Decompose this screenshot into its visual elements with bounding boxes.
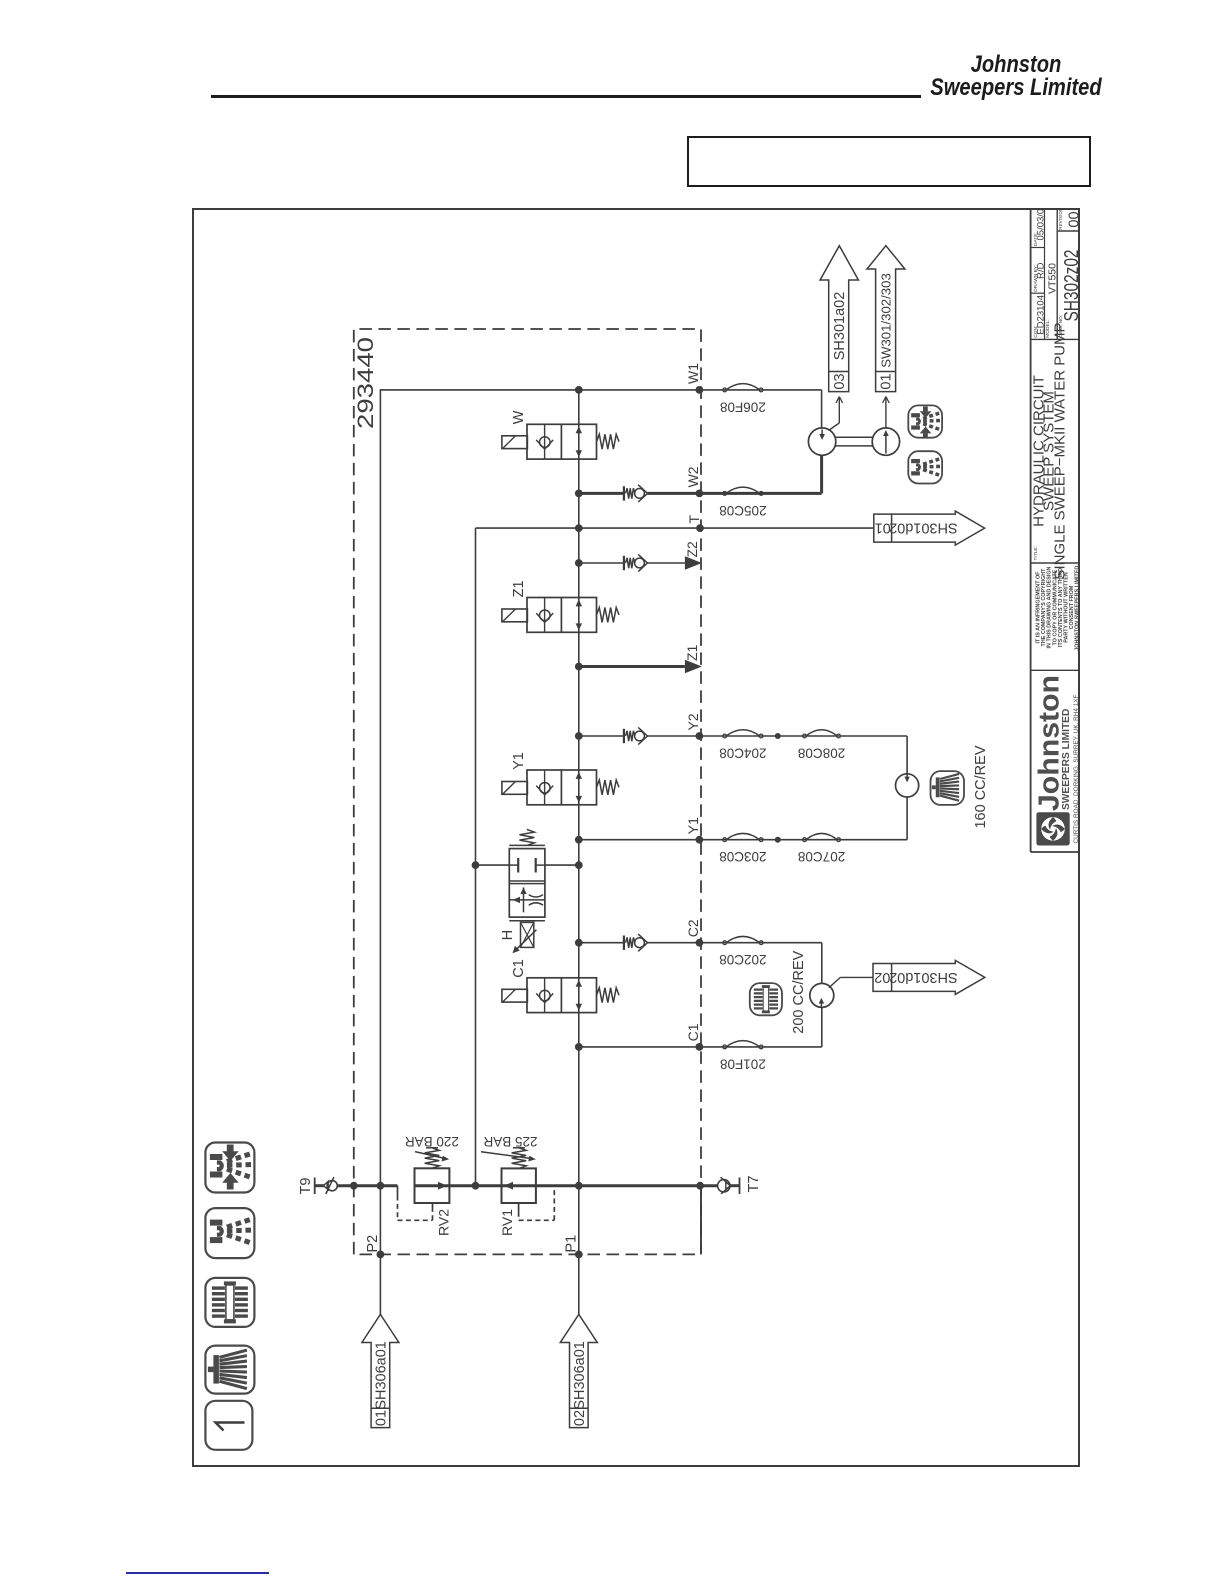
icon spray arrows at pump	[908, 405, 942, 438]
output arrow 02 SH301d02 down	[873, 960, 985, 994]
svg-text:02: 02	[874, 969, 890, 985]
flow control valve H body	[509, 849, 545, 918]
drawing frame	[193, 209, 1079, 1466]
solid overlay on block bottom edge near T7	[700, 1186, 702, 1255]
orifice 203C08 on x=627.3	[723, 838, 727, 842]
icon brush at 200cc motor	[750, 983, 782, 1015]
svg-text:ED23104: ED23104	[1036, 295, 1047, 335]
orifice 208C08 on x=731.0	[803, 734, 807, 738]
solenoid valve Y1	[527, 770, 597, 805]
output arrow 03 SH301a02	[820, 246, 858, 392]
wire C2 branch	[579, 942, 624, 944]
rotated schematic	[192, 208, 1080, 1467]
svg-text:SINGLE SWEEP−MKII WATER PUMP: SINGLE SWEEP−MKII WATER PUMP	[1052, 322, 1069, 579]
check valve on line x=973.6	[623, 486, 625, 500]
svg-text:Z2: Z2	[684, 541, 700, 558]
wire from arrow to port	[578, 1254, 580, 1314]
svg-text:REVISION: REVISION	[1058, 208, 1063, 230]
svg-text:208C08: 208C08	[798, 746, 845, 761]
svg-text:206F08: 206F08	[720, 399, 766, 414]
orifice 202C08 on x=524.3	[723, 941, 727, 945]
RV2 setting arrow	[415, 1152, 446, 1159]
wire H line from T rail to main rail	[476, 864, 510, 866]
port T7	[739, 1178, 741, 1195]
header rule	[211, 95, 921, 98]
orifice 201F08 on x=420.1	[723, 1045, 727, 1049]
svg-text:00: 00	[1067, 211, 1081, 227]
wire T return rail	[475, 528, 477, 1186]
title block frame	[1030, 208, 1032, 852]
icon water spray with shut-off arrows	[205, 1143, 254, 1193]
svg-text:205C08: 205C08	[719, 503, 766, 518]
svg-text:SWEEPERS LIMITED: SWEEPERS LIMITED	[1061, 709, 1072, 810]
wire Z1 branch	[579, 665, 685, 668]
svg-text:R/D: R/D	[1036, 262, 1047, 279]
svg-text:05/03/07: 05/03/07	[1036, 208, 1047, 240]
H closed position cell	[509, 864, 518, 866]
svg-text:03: 03	[832, 373, 848, 389]
H metering position cell	[509, 899, 545, 901]
svg-text:JOHNSTON SWEEPERS LIMITED.: JOHNSTON SWEEPERS LIMITED.	[1075, 564, 1080, 651]
svg-text:01: 01	[879, 373, 895, 389]
solenoid valve C1	[527, 978, 597, 1013]
orifice 204C08 on x=731.0	[723, 734, 727, 738]
svg-text:01: 01	[374, 1410, 390, 1426]
relief valve RV2	[415, 1168, 450, 1203]
svg-text:Y1: Y1	[511, 752, 527, 770]
port T9	[314, 1178, 316, 1195]
johnston logo cell	[1036, 812, 1069, 845]
svg-text:SH301d02: SH301d02	[889, 520, 958, 536]
icon sheet number 1	[205, 1401, 252, 1450]
wire W2 branch	[579, 492, 624, 495]
RV2 pilot dashed loop	[397, 1186, 399, 1196]
output arrow 01 SW301/302/303	[867, 246, 905, 392]
svg-text:T7: T7	[746, 1176, 762, 1193]
shaft between circles	[835, 445, 872, 447]
connector to arrow 02	[829, 977, 841, 987]
wire main P1 rail	[578, 390, 580, 1255]
svg-text:201F08: 201F08	[720, 1056, 766, 1071]
icon channel brush	[205, 1346, 254, 1394]
svg-text:SH301d02: SH301d02	[889, 969, 958, 985]
connector to arrow 03	[829, 423, 840, 431]
svg-text:W2: W2	[685, 466, 701, 487]
RV1 pilot dashed loop	[518, 1203, 520, 1212]
icon wide sweep brush	[205, 1278, 254, 1327]
water pump motor pair circles	[808, 428, 835, 455]
svg-text:MODEL:: MODEL:	[1045, 319, 1051, 337]
footer blue link line	[126, 1572, 269, 1574]
svg-text:W: W	[511, 410, 527, 424]
empty reference box	[687, 136, 1091, 187]
svg-text:C1: C1	[685, 1023, 701, 1041]
water pump motor 200cc circle	[810, 983, 834, 1007]
wire RV2 to RV1	[449, 1184, 501, 1187]
wire RV1 to T7	[536, 1184, 718, 1187]
header wordmark Johnston Sweepers Limited	[848, 53, 1184, 99]
svg-text:Z1: Z1	[511, 580, 527, 597]
svg-text:H: H	[500, 930, 516, 940]
svg-text:T: T	[686, 515, 702, 524]
check valve on line x=731.0	[623, 729, 625, 743]
svg-text:01: 01	[875, 520, 891, 536]
svg-text:02: 02	[572, 1410, 588, 1426]
svg-text:207C08: 207C08	[798, 849, 845, 864]
check valve on line x=904.0	[623, 556, 625, 570]
manifold block 293440 dashed boundary	[354, 329, 701, 1254]
wire from arrow to port	[379, 1254, 381, 1314]
svg-text:200 CC/REV: 200 CC/REV	[791, 950, 807, 1033]
svg-text:SH302z02: SH302z02	[1061, 250, 1080, 322]
wire T9 down to pilot corner	[337, 1184, 397, 1187]
check valve at T9	[315, 1184, 324, 1187]
svg-text:SH306a01: SH306a01	[374, 1341, 390, 1410]
icon brush at 160cc motor	[931, 771, 965, 805]
svg-text:204C08: 204C08	[719, 746, 766, 761]
orifice 206F08 on x=1077.1	[723, 388, 727, 392]
arrow in top circle	[821, 430, 823, 439]
svg-text:Z1: Z1	[684, 644, 700, 661]
H spring	[509, 844, 545, 846]
svg-text:202C08: 202C08	[719, 952, 766, 967]
input arrow 01 SH306a01	[362, 1314, 399, 1427]
svg-text:160 CC/REV: 160 CC/REV	[973, 745, 989, 828]
svg-text:C1: C1	[511, 959, 527, 978]
svg-text:220 BAR: 220 BAR	[405, 1134, 459, 1149]
svg-text:SW301/302/303: SW301/302/303	[879, 273, 894, 368]
check valve at T7	[718, 1180, 730, 1192]
svg-text:W1: W1	[685, 363, 701, 384]
icon water spray	[205, 1208, 254, 1258]
relief valve RV1	[502, 1168, 536, 1203]
input arrow 02 SH306a01	[560, 1314, 597, 1427]
svg-text:P2: P2	[365, 1235, 381, 1253]
orifice 207C08 on x=627.3	[803, 838, 807, 842]
svg-text:T9: T9	[298, 1178, 314, 1195]
svg-text:TITLE:: TITLE:	[1033, 546, 1039, 560]
svg-text:Y2: Y2	[685, 713, 701, 730]
wire C1 branch	[579, 1046, 822, 1048]
H proportional solenoid	[509, 920, 545, 922]
plugged port Z2 triangle	[685, 556, 702, 570]
H solenoid arrow	[516, 930, 537, 950]
svg-text:CURTIS ROAD, DORKING, SURREY,: CURTIS ROAD, DORKING, SURREY, UK. RH4 1X…	[1073, 694, 1080, 843]
wire Y1 branch	[579, 839, 907, 841]
sweep motor 160cc circle	[896, 774, 919, 797]
svg-text:RV2: RV2	[436, 1209, 452, 1236]
svg-text:203C08: 203C08	[719, 849, 766, 864]
solenoid valve Z1	[527, 598, 597, 633]
wire P2 rail to W1 line	[380, 390, 578, 1255]
svg-text:C2: C2	[685, 919, 701, 937]
svg-text:225 BAR: 225 BAR	[483, 1134, 537, 1149]
connector to arrow 01	[885, 397, 887, 428]
output arrow 01 SH301d02 down	[874, 511, 985, 545]
wire Y2 branch	[579, 735, 624, 737]
orifice 205C08 on x=973.6	[723, 492, 727, 496]
check valve on line x=524.3	[623, 936, 625, 950]
svg-text:P1: P1	[563, 1235, 579, 1253]
svg-text:RV1: RV1	[499, 1209, 515, 1236]
plugged port Z1 triangle	[685, 660, 702, 674]
svg-text:SH306a01: SH306a01	[572, 1341, 588, 1410]
wire T branch to arrow	[476, 527, 874, 529]
wire Z2 branch	[579, 562, 624, 564]
RV1 setting arrow	[481, 1152, 532, 1159]
solenoid valve W	[527, 424, 597, 459]
svg-text:293440: 293440	[353, 337, 378, 429]
icon spray at pump	[908, 451, 942, 483]
arrow in bottom circle	[885, 434, 887, 454]
svg-text:Y1: Y1	[685, 817, 701, 834]
svg-text:VT550: VT550	[1047, 263, 1059, 294]
junction dots	[377, 1251, 385, 1259]
svg-text:SH301a02: SH301a02	[832, 292, 848, 361]
wire W1 branch lower part	[579, 389, 822, 391]
